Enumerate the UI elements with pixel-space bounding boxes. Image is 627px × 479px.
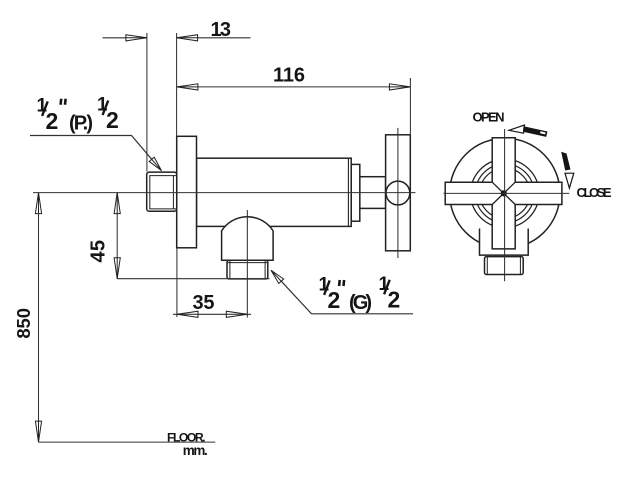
valve stem (360, 177, 386, 209)
bonnet (351, 164, 360, 221)
body end ring line (347, 158, 349, 226)
svg-text:850: 850 (13, 308, 34, 339)
inner circle 1 (471, 159, 539, 227)
outlet centerline / 35 right extension (246, 210, 248, 318)
front view vertical centerline (504, 129, 506, 281)
outlet nipple (side view) (227, 260, 268, 279)
leader line G label (272, 271, 414, 314)
svg-text:CLOSE: CLOSE (577, 185, 612, 200)
handle axis line (side view) (397, 128, 399, 258)
wall flange (177, 136, 197, 248)
handle cross (front view) (445, 138, 562, 249)
hub center dot (501, 190, 507, 196)
svg-text:116: 116 (273, 65, 305, 87)
outlet nipple (front view) (485, 257, 524, 275)
ext line 116 right (409, 78, 411, 135)
label 1/2"(G) 1/2 (319, 274, 341, 313)
front view horizontal centerline (444, 192, 570, 194)
valve body cylinder (197, 158, 352, 226)
dim line 45 (116, 193, 118, 279)
leader line P label (30, 136, 161, 171)
svg-text:OPEN: OPEN (473, 110, 505, 125)
floor line (38, 441, 215, 443)
ext line 13 left (146, 33, 148, 172)
dim line 35 (173, 313, 251, 315)
svg-text:13: 13 (211, 19, 232, 41)
svg-text:35: 35 (193, 292, 215, 314)
dim line 850 (38, 193, 40, 443)
handle outer circle (front view) (450, 138, 560, 248)
svg-text:mm.: mm. (183, 443, 208, 458)
inner circle 2 (475, 164, 534, 223)
arrowheads (126, 35, 147, 41)
svg-text:(G): (G) (349, 292, 372, 314)
dim line 116 (177, 86, 411, 88)
main centerline (33, 192, 416, 194)
label 1/2"(P.) 1/2 (37, 95, 59, 133)
cross hub diagonals (492, 182, 515, 204)
dim line 13 (103, 37, 251, 39)
handle cross bar (side view) (386, 135, 411, 251)
inner circle 3 (480, 168, 530, 218)
inlet hex nut (147, 172, 177, 211)
ext line 13 right (176, 33, 178, 136)
svg-text:FLOOR.: FLOOR. (167, 430, 206, 444)
45 bottom extension (117, 278, 269, 280)
outlet elbow dome (222, 217, 274, 261)
ext line 35 left (176, 248, 178, 317)
svg-text:(P.): (P.) (69, 113, 93, 135)
OPEN arrow (509, 125, 548, 137)
valve body (front view) (480, 229, 529, 256)
handle hub circle (side view) (386, 181, 410, 205)
svg-text:45: 45 (88, 240, 110, 263)
CLOSE arrow (561, 152, 574, 188)
